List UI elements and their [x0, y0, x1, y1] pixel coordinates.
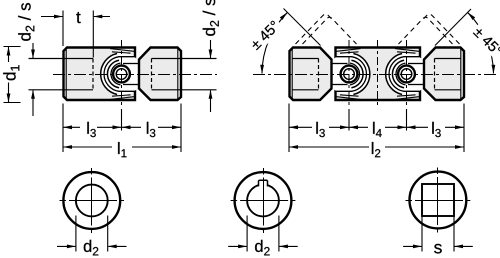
dimension l2: [289, 142, 464, 157]
left yoke body (sleeve with fork): [64, 48, 136, 101]
dimension l3 l4 l3: [289, 104, 464, 153]
vertical centerline joint1: [348, 40, 350, 108]
bore depth hidden line right: [151, 59, 153, 90]
ball joint2: [398, 66, 415, 83]
dimension l3 l3: [63, 104, 181, 153]
joint1 trunnion: [332, 63, 348, 65]
ball: [113, 66, 130, 83]
right end-face inner edge: [177, 49, 179, 100]
joint1 cutout: [328, 53, 371, 96]
left sleeve body: [290, 48, 332, 101]
dashed chevron joint2: [422, 14, 460, 44]
joint2 cup: [392, 60, 404, 88]
dimension d1: [3, 47, 20, 103]
joint1 crescent arm inner: [336, 57, 367, 92]
bearing cup outer: [107, 60, 119, 88]
horizontal centerline left drawing: [53, 74, 217, 76]
end view 3 : square bore: [403, 168, 473, 254]
vertical centerline joint: [121, 40, 123, 108]
crescent arm outer: [101, 54, 117, 95]
joint2 cutout: [385, 53, 428, 96]
45deg leader right: [435, 9, 471, 46]
horizontal centerline right drawing: [253, 74, 498, 76]
keyway notch: [259, 179, 268, 186]
ball joint1: [341, 66, 358, 83]
45deg leader left: [284, 9, 321, 46]
joint cutout (white): [100, 53, 143, 96]
joint1 cup: [351, 60, 363, 88]
dimension d2/s right: [203, 0, 219, 112]
joint1 crescent arm outer: [353, 54, 369, 95]
joint2 crescent arm inner: [389, 57, 420, 92]
angle dimension right: [468, 12, 500, 74]
dashed chevron joint1: [296, 14, 334, 44]
bore lines right sleeve: [435, 58, 462, 60]
vertical centerline middle: [377, 40, 379, 108]
joint1 prong wedge lines: [337, 49, 361, 52]
joint2 crescent arm outer: [386, 54, 402, 95]
center link body: [336, 48, 421, 101]
right sleeve body: [424, 48, 464, 101]
left end-face inner edge: [65, 49, 67, 100]
dimension l1: [63, 142, 181, 157]
end view 1 : plain bore: [57, 168, 127, 255]
joint2 trunnion: [408, 63, 424, 65]
joint2 prong wedge lines: [395, 49, 419, 52]
bore lines right sleeve + extension: [152, 58, 217, 60]
trunnion lines: [123, 63, 139, 65]
dimension t: [41, 11, 110, 58]
crescent arm inner: [104, 57, 135, 92]
angle dimension left: [246, 12, 288, 74]
prong wedge lines bottom: [110, 97, 134, 100]
bore depth hidden line left: [92, 59, 94, 90]
bore lines left sleeve + extension: [29, 58, 94, 60]
bearing cup inner: [111, 63, 121, 85]
end view 2 : bore with keyway: [228, 168, 298, 255]
prong wedge lines top: [110, 49, 134, 52]
vertical centerline joint2: [406, 40, 408, 108]
bore lines left sleeve: [292, 58, 319, 60]
dimension d2/s left: [18, 3, 35, 116]
right yoke body (sleeve, V-shoulder): [139, 48, 181, 101]
